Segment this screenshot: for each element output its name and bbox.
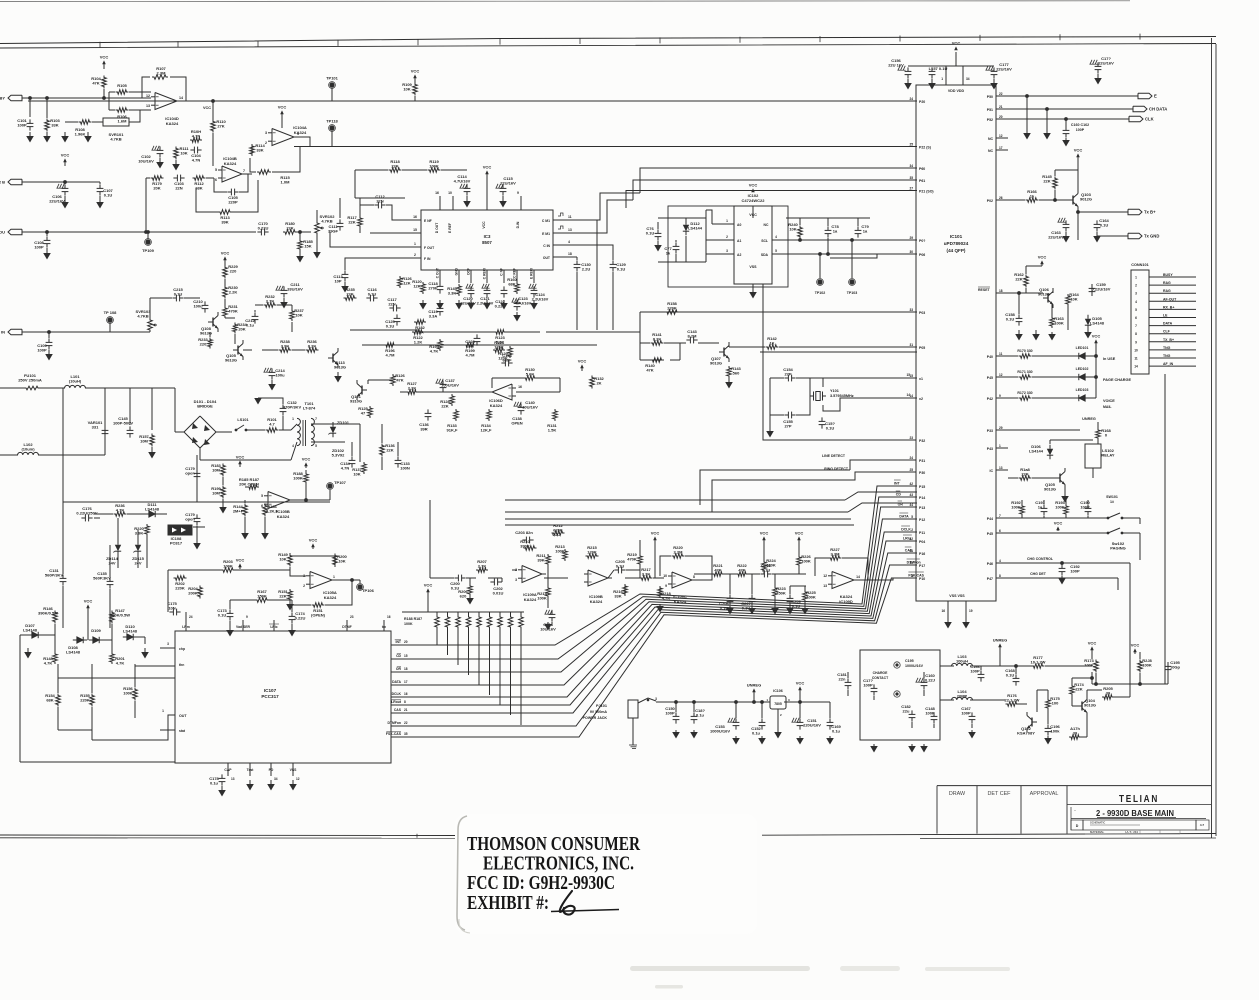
svg-text:1: 1 — [162, 709, 164, 713]
IC102 pin SCL — [772, 239, 786, 241]
svg-text:(44 QFP): (44 QFP) — [947, 248, 966, 253]
IC3 right pin C M1 — [553, 219, 566, 221]
svg-text:40: 40 — [909, 561, 913, 565]
svg-text:VCC: VCC — [483, 165, 492, 170]
svg-text:P0?: P0? — [919, 239, 925, 243]
IC107 top pin tm — [383, 620, 385, 631]
svg-text:12: 12 — [999, 134, 1003, 138]
svg-text:1: 1 — [292, 417, 294, 421]
svg-text:BUSY: BUSY — [1163, 273, 1173, 277]
ground C178 — [221, 786, 223, 790]
svg-text:13: 13 — [146, 104, 150, 108]
svg-text:P45: P45 — [987, 376, 993, 380]
svg-text:KA324: KA324 — [224, 161, 237, 166]
svg-text:560: 560 — [733, 371, 740, 376]
svg-text:10K: 10K — [180, 151, 187, 156]
wire sw102 — [1008, 532, 1108, 534]
svg-text:24: 24 — [909, 456, 913, 460]
capacitor C131 — [62, 574, 64, 578]
svg-text:33K: 33K — [51, 123, 58, 128]
border frame right — [1211, 38, 1213, 838]
wire — [224, 263, 226, 266]
op-amp IC109C — [672, 572, 692, 588]
svg-text:0.1U: 0.1U — [826, 426, 835, 431]
svg-text:9310G: 9310G — [350, 399, 362, 404]
svg-text:39K: 39K — [537, 558, 544, 563]
svg-text:LS4148: LS4148 — [23, 628, 38, 633]
svg-text:CLK: CLK — [1145, 117, 1154, 122]
wire P52 net CLK — [1008, 118, 1129, 120]
svg-text:22K: 22K — [1021, 472, 1028, 477]
svg-text:14: 14 — [179, 96, 183, 100]
wire vertical bus x597 — [596, 220, 598, 330]
resistor R172 — [1019, 396, 1032, 401]
resistor R236 — [114, 512, 127, 517]
svg-text:220K: 220K — [667, 306, 677, 311]
svg-text:9: 9 — [1135, 340, 1137, 344]
resistor R204 — [198, 586, 203, 599]
svg-text:C4724WC22: C4724WC22 — [742, 198, 766, 203]
wire bundle line DCLK — [404, 532, 917, 697]
svg-text:3: 3 — [655, 697, 657, 701]
svg-text:22K: 22K — [1075, 687, 1082, 692]
resistor R146 — [53, 611, 58, 624]
capacitor C76 — [657, 229, 659, 233]
transistor Q102 — [1031, 718, 1033, 727]
svg-text:SCL: SCL — [761, 239, 768, 243]
svg-text:4.7KB: 4.7KB — [321, 219, 332, 224]
svg-text:4: 4 — [1135, 300, 1137, 304]
capacitor C204 electrolytic — [545, 610, 547, 614]
svg-text:100K: 100K — [404, 622, 413, 626]
svg-text:8: 8 — [999, 574, 1001, 578]
resistor RL7 — [498, 615, 503, 629]
capacitor C163 electrolytic — [1058, 218, 1060, 222]
svg-text:2: 2 — [1135, 284, 1137, 288]
svg-text:4.7K: 4.7K — [116, 508, 125, 513]
resistor R161 — [312, 603, 325, 608]
svg-text:Test: Test — [247, 768, 255, 772]
svg-text:1.5K: 1.5K — [548, 428, 557, 433]
grounds under IC3 — [422, 300, 424, 303]
resistor R238 — [279, 348, 292, 353]
diode D111 — [149, 511, 155, 517]
resistor R163 — [1050, 316, 1055, 328]
svg-text:POWER JACK: POWER JACK — [583, 716, 608, 720]
svg-text:thn: thn — [179, 663, 184, 667]
svg-text:12: 12 — [146, 94, 150, 98]
svg-text:TELIAN: TELIAN — [1119, 793, 1159, 805]
ground C101 — [29, 132, 31, 136]
IC102 pin A1 — [720, 239, 734, 241]
svg-text:R172 330: R172 330 — [1017, 391, 1032, 395]
svg-text:1a: 1a — [1038, 505, 1043, 510]
resistor R236b — [306, 348, 319, 353]
svg-text:C160 C162: C160 C162 — [1071, 123, 1089, 127]
title block outline — [937, 785, 1211, 787]
resistor R120 — [421, 282, 426, 294]
resistor R174 — [1070, 684, 1075, 696]
capacitor C121 electrolytic — [482, 284, 484, 288]
wire input column — [145, 178, 147, 232]
capacitor C111 — [339, 219, 341, 223]
svg-text:22U 16V: 22U 16V — [888, 63, 904, 68]
svg-text:4.7K: 4.7K — [116, 661, 125, 666]
svg-text:UNREG: UNREG — [993, 638, 1007, 643]
svg-text:0.22U: 0.22U — [258, 226, 269, 231]
capacitor C169 — [829, 718, 831, 722]
transistor Q107 — [723, 348, 725, 357]
IC3 top pin D OUT — [439, 196, 441, 210]
resistor R212 — [552, 531, 565, 536]
IC IC101 uPD789024 — [916, 85, 996, 601]
wire net P05 — [760, 351, 917, 353]
svg-text:100K: 100K — [555, 549, 565, 554]
resistor R142 — [766, 345, 779, 350]
svg-text:VCC: VCC — [278, 105, 287, 110]
svg-text:TP102: TP102 — [815, 291, 826, 295]
resistor R129b — [493, 348, 505, 353]
svg-text:IC: IC — [990, 469, 994, 473]
svg-text:68K: 68K — [46, 698, 53, 703]
svg-text:KA324: KA324 — [324, 595, 337, 600]
svg-text:RX_B+: RX_B+ — [1163, 305, 1174, 309]
svg-text:100P: 100P — [17, 123, 27, 128]
svg-text:P06: P06 — [919, 253, 925, 257]
ground Q113 — [337, 372, 339, 376]
svg-text:12K: 12K — [413, 284, 420, 289]
transistor Q105 — [1059, 474, 1061, 483]
connector flag Tx GND — [1128, 233, 1142, 239]
resistor R203 — [221, 568, 235, 573]
svg-text:560P.3KV: 560P.3KV — [93, 576, 111, 581]
svg-text:C IN: C IN — [543, 244, 550, 248]
ground R157 — [151, 447, 153, 452]
capacitor C200 — [454, 577, 458, 579]
svg-text:1: 1 — [1135, 276, 1137, 280]
capacitor C212 — [254, 312, 256, 316]
svg-text:DRAW: DRAW — [949, 791, 966, 797]
IC3 left pin F OUT — [405, 246, 421, 248]
ground SVR101 branch — [65, 121, 78, 123]
svg-text:47K: 47K — [714, 568, 721, 573]
svg-text:10: 10 — [448, 191, 452, 195]
capacitor C181 — [847, 678, 849, 682]
capacitor C191 — [1043, 504, 1045, 508]
svg-text:680F: 680F — [502, 358, 512, 363]
diode D106 — [1047, 449, 1053, 455]
resistor R206 — [468, 584, 473, 596]
IC3 left pin F IN — [405, 257, 421, 259]
svg-text:470P/3KV: 470P/3KV — [283, 405, 302, 410]
svg-text:DATA: DATA — [899, 515, 909, 519]
svg-text:PAGE CHARGE: PAGE CHARGE — [1103, 378, 1131, 382]
svg-text:22N: 22N — [388, 302, 395, 307]
svg-text:TNG: TNG — [1163, 346, 1171, 350]
svg-text:4: 4 — [568, 240, 570, 244]
capacitor C114 electrolytic — [460, 184, 462, 188]
resistor R112 — [193, 176, 206, 181]
svg-text:DCLK: DCLK — [392, 692, 402, 696]
test point TP109 — [145, 239, 150, 244]
test point TP118 — [329, 125, 334, 130]
capacitor C115 electrolytic — [496, 184, 498, 188]
connector AF-OUT left edge — [8, 229, 22, 235]
capacitor C143 — [686, 339, 690, 341]
svg-text:6: 6 — [999, 529, 1001, 533]
svg-text:TP106: TP106 — [362, 588, 375, 593]
svg-text:LS4144: LS4144 — [688, 226, 703, 231]
capacitor C108 — [46, 236, 48, 240]
IC107 top pin Vad SER — [242, 620, 244, 631]
resistor R105 — [116, 90, 129, 95]
svg-text:4: 4 — [775, 235, 777, 239]
svg-text:P12: P12 — [919, 518, 925, 522]
svg-text:open: open — [185, 471, 195, 476]
resistor R103 — [45, 119, 50, 132]
svg-text:0.1U: 0.1U — [1006, 673, 1015, 678]
wire RING DETECT — [712, 472, 916, 512]
wire vdd top — [908, 65, 994, 67]
svg-text:4.7N: 4.7N — [192, 134, 201, 139]
svg-text:5: 5 — [911, 515, 913, 519]
capacitor C174 — [291, 612, 293, 616]
resistor R211 — [546, 554, 551, 566]
capacitor C157 — [931, 67, 933, 71]
svg-text:390K/0.5W: 390K/0.5W — [38, 611, 58, 616]
svg-text:47: 47 — [361, 411, 366, 416]
svg-text:LS4148: LS4148 — [1090, 321, 1105, 326]
capacitor C206 — [729, 594, 731, 598]
diode D109 — [93, 637, 99, 643]
resistor R217 — [640, 576, 653, 581]
svg-text:IC101: IC101 — [950, 234, 963, 239]
svg-text:VSS: VSS — [290, 768, 298, 772]
svg-text:44: 44 — [909, 503, 913, 507]
svg-text:FSK-CAS: FSK-CAS — [386, 732, 402, 736]
ground C102 — [159, 158, 161, 162]
wire relay — [1008, 429, 1080, 431]
svg-text:3: 3 — [911, 574, 913, 578]
svg-text:D109: D109 — [91, 628, 101, 633]
svg-text:KA324: KA324 — [277, 514, 290, 519]
svg-text:4.7K: 4.7K — [430, 349, 439, 354]
svg-text:12K: 12K — [403, 281, 410, 286]
svg-text:CHG CONTROL: CHG CONTROL — [1027, 557, 1054, 561]
svg-text:P50: P50 — [987, 95, 993, 99]
svg-text:5: 5 — [1135, 308, 1137, 312]
bridge rectifier D101-D104 — [184, 416, 216, 448]
ground C115 — [502, 196, 504, 201]
resistor RL4 — [466, 615, 471, 629]
capacitor C104 — [190, 149, 194, 151]
svg-text:KA324: KA324 — [674, 599, 687, 604]
wire bundle line DTMFon — [404, 565, 917, 726]
battery contact block — [860, 650, 940, 740]
resistor R129 — [508, 346, 513, 358]
svg-text:D: D — [1076, 824, 1079, 828]
svg-text:22K: 22K — [1043, 179, 1050, 184]
svg-text:KA324: KA324 — [294, 130, 307, 135]
resistor R179 — [151, 176, 164, 181]
ground IC101 vss1 — [947, 621, 949, 623]
svg-text:35: 35 — [909, 176, 913, 180]
resistor RL6 — [487, 615, 492, 629]
capacitor C211 electrolytic — [276, 286, 278, 290]
svg-text:P21 (SO): P21 (SO) — [919, 190, 934, 194]
svg-text:VCC: VCC — [578, 359, 587, 364]
resistor R122 — [412, 330, 424, 335]
svg-text:3.3K: 3.3K — [448, 291, 457, 296]
svg-text:LS4148: LS4148 — [66, 650, 81, 655]
svg-text:22K: 22K — [441, 404, 448, 409]
svg-text:23: 23 — [909, 436, 913, 440]
resistor R195 — [438, 339, 443, 351]
resistor R170 — [1019, 354, 1032, 359]
svg-text:100P: 100P — [1076, 128, 1085, 132]
svg-text:INT: INT — [396, 640, 402, 644]
svg-text:331: 331 — [92, 425, 99, 430]
svg-text:150K: 150K — [257, 594, 267, 599]
capacitor C207 — [751, 594, 753, 598]
svg-text:P20: P20 — [919, 100, 925, 104]
svg-text:1#: 1# — [1110, 500, 1114, 504]
op-amp IC109A — [522, 566, 542, 583]
resistor R179b — [1069, 735, 1081, 740]
capacitor C177 electrolytic — [986, 66, 988, 70]
svg-text:47K: 47K — [396, 378, 403, 383]
svg-text:12: 12 — [999, 373, 1003, 377]
svg-text:OUT: OUT — [179, 714, 187, 718]
svg-text:22K: 22K — [391, 164, 398, 169]
svg-text:0.01U: 0.01U — [493, 591, 504, 596]
resistor R110 — [211, 120, 216, 133]
svg-text:4.7N: 4.7N — [341, 466, 350, 471]
wire TxGND — [1097, 235, 1128, 237]
svg-text:9013G: 9013G — [1038, 292, 1050, 297]
svg-text:P30: P30 — [919, 471, 925, 475]
svg-text:12K,F: 12K,F — [481, 428, 492, 433]
wire net P22 — [294, 146, 917, 148]
svg-text:10K: 10K — [789, 227, 796, 232]
ground node — [64, 132, 66, 136]
svg-text:SCHEMATIC: SCHEMATIC — [1090, 821, 1105, 825]
svg-text:LRm: LRm — [182, 625, 190, 629]
svg-text:3.3K: 3.3K — [642, 572, 651, 577]
svg-text:2.7K: 2.7K — [478, 564, 487, 569]
svg-text:C OUT: C OUT — [436, 268, 440, 278]
capacitor C160 C162 — [1065, 126, 1067, 130]
svg-text:18: 18 — [568, 252, 572, 256]
wire SCL SDA nets — [786, 239, 917, 241]
svg-text:220K: 220K — [175, 586, 185, 591]
IC U-IC3 8507 — [421, 210, 553, 270]
wire IC105B section — [222, 477, 224, 485]
svg-text:0.1U: 0.1U — [174, 292, 183, 297]
svg-text:PJ101: PJ101 — [596, 704, 607, 708]
svg-text:P44: P44 — [987, 517, 993, 521]
IC3 left pin E NF — [405, 219, 421, 221]
resistor R160 — [515, 282, 520, 294]
svg-text:24: 24 — [909, 97, 913, 101]
svg-text:8: 8 — [1135, 332, 1137, 336]
svg-text:100K: 100K — [429, 164, 439, 169]
svg-text:100N: 100N — [400, 466, 410, 471]
svg-text:A0: A0 — [737, 223, 741, 227]
svg-text:22K: 22K — [286, 226, 293, 231]
resistor R166 — [1026, 198, 1039, 203]
svg-text:KA324: KA324 — [524, 597, 537, 602]
capacitor C209 — [789, 594, 791, 598]
wire opamp row — [430, 577, 454, 579]
wire — [22, 97, 151, 99]
svg-text:9: 9 — [999, 394, 1001, 398]
svg-text:3: 3 — [265, 131, 267, 135]
capacitor C196 — [1047, 724, 1049, 728]
svg-text:IC109D: IC109D — [839, 599, 853, 604]
svg-text:22U/16V: 22U/16V — [1048, 235, 1064, 240]
svg-text:100K: 100K — [223, 564, 233, 569]
capacitor C166 — [980, 670, 982, 674]
resistor R219 — [638, 554, 643, 566]
wire — [242, 173, 252, 175]
svg-text:7: 7 — [1135, 324, 1137, 328]
capacitor C204b wire — [551, 622, 553, 626]
capacitor C128 — [476, 334, 478, 338]
capacitor C148 — [933, 712, 935, 716]
test point TP102 — [817, 279, 822, 284]
resistor R205 — [1102, 695, 1114, 700]
ground R103 — [46, 132, 48, 136]
svg-text:P52: P52 — [987, 118, 993, 122]
svg-text:VCC: VCC — [795, 531, 804, 536]
wire P32 net — [763, 284, 916, 440]
svg-text:VCC: VCC — [552, 533, 560, 537]
svg-text:4.7N: 4.7N — [192, 158, 201, 163]
svg-text:LS101: LS101 — [237, 418, 248, 422]
svg-text:9613G: 9613G — [334, 365, 346, 370]
svg-text:1: 1 — [297, 132, 299, 136]
svg-text:VCC: VCC — [203, 106, 211, 110]
resistor R113 — [218, 210, 232, 215]
svg-text:P14: P14 — [919, 496, 925, 500]
resistor RL9 — [519, 615, 524, 629]
wire — [64, 182, 66, 184]
svg-text:(OPEN): (OPEN) — [311, 613, 326, 618]
resistor R185 — [298, 239, 303, 251]
svg-text:0.22U: 0.22U — [295, 616, 306, 621]
svg-text:12: 12 — [296, 777, 300, 781]
svg-text:D.IN: D.IN — [516, 221, 520, 228]
capacitor C109 — [48, 338, 50, 342]
resistor R231 — [223, 306, 228, 318]
capacitor C205 — [614, 569, 618, 571]
svg-text:0.1U: 0.1U — [368, 292, 377, 297]
resistor R162b — [414, 320, 426, 325]
resistor R180 — [283, 230, 297, 235]
resistor R224 — [762, 560, 767, 572]
opto-isolator IC108 — [168, 525, 192, 535]
grounds IC107 bottom — [249, 780, 251, 784]
svg-text:AF_IN: AF_IN — [1163, 362, 1174, 366]
svg-text:P13: P13 — [919, 506, 925, 510]
svg-text:3.9K: 3.9K — [281, 344, 290, 349]
svg-text:41: 41 — [909, 549, 913, 553]
svg-text:7805: 7805 — [774, 702, 782, 706]
svg-text:15: 15 — [404, 654, 408, 658]
svg-text:tm: tm — [382, 625, 386, 629]
IC3 right pin OUT — [553, 256, 566, 258]
